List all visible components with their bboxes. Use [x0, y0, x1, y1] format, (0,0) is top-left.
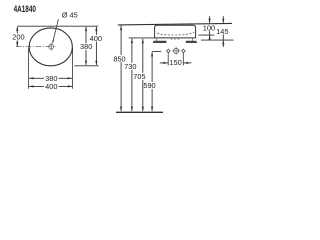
svg-text:150: 150 [169, 58, 181, 67]
svg-text:590: 590 [143, 81, 155, 90]
svg-text:4A1840: 4A1840 [14, 4, 37, 15]
svg-text:380: 380 [80, 42, 92, 51]
svg-text:705: 705 [133, 72, 145, 81]
svg-text:400: 400 [45, 82, 57, 91]
svg-text:100: 100 [203, 24, 215, 33]
svg-text:145: 145 [216, 27, 228, 36]
svg-text:400: 400 [90, 34, 102, 43]
svg-text:Ø 45: Ø 45 [62, 11, 78, 20]
svg-text:730: 730 [124, 62, 136, 71]
svg-text:200: 200 [12, 32, 24, 41]
